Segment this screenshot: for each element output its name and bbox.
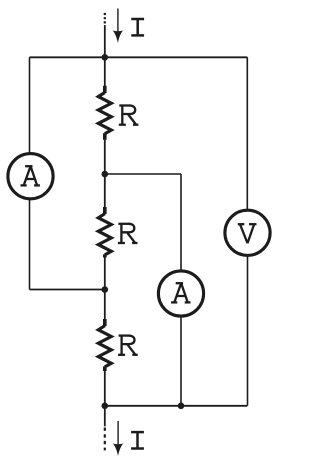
node: A2 branch to bottom wire (178, 403, 185, 410)
wire below voltmeter V (247, 255, 249, 405)
wire below ammeter A2 (180, 316, 182, 406)
wire: dotted outgoing lead at bottom (104, 428, 106, 451)
wire: vertical branch down to ammeter A2 (180, 174, 182, 271)
wire between R1 and R2 (104, 140, 106, 208)
wire: left branch horizontal to node between R2,R3 (30, 289, 105, 291)
node: junction between R2 and R3 (to ammeter A1 branch) (102, 286, 109, 293)
label R3 (118, 336, 138, 355)
node: junction between R1 and R2 (to ammeter A2 branch) (102, 171, 109, 178)
current arrow I (top) (112, 9, 123, 43)
current arrow I (bottom) (113, 421, 124, 456)
label V (238, 224, 257, 243)
wire: horizontal branch from mid junction to ammeter A2 (105, 173, 181, 175)
resistor R3 (98, 319, 111, 371)
bottom horizontal wire (105, 405, 248, 407)
label R2 (118, 224, 138, 243)
right branch wire down to voltmeter V (246, 57, 248, 210)
label A2 (171, 283, 190, 302)
wire: top lead into top junction (104, 25, 106, 87)
wire between R2 and R3 (104, 258, 106, 320)
resistor R2 (98, 207, 111, 258)
ammeter A1 (8, 154, 53, 199)
wire below R3 to bottom node (104, 371, 106, 426)
node: bottom junction (102, 403, 109, 410)
label R1 (119, 106, 139, 125)
top horizontal wire (30, 56, 248, 58)
wire below ammeter A1 (29, 199, 31, 290)
resistor R1 (98, 86, 111, 140)
label I (bottom) (131, 432, 144, 448)
left branch wire down to ammeter A1 (29, 57, 31, 154)
label I (top) (131, 19, 144, 35)
label A1 (21, 166, 40, 185)
ammeter A2 (158, 271, 203, 316)
wire: dotted incoming lead at top of main vertical line (104, 13, 106, 25)
node: top junction (102, 54, 109, 61)
voltmeter V (225, 210, 270, 255)
